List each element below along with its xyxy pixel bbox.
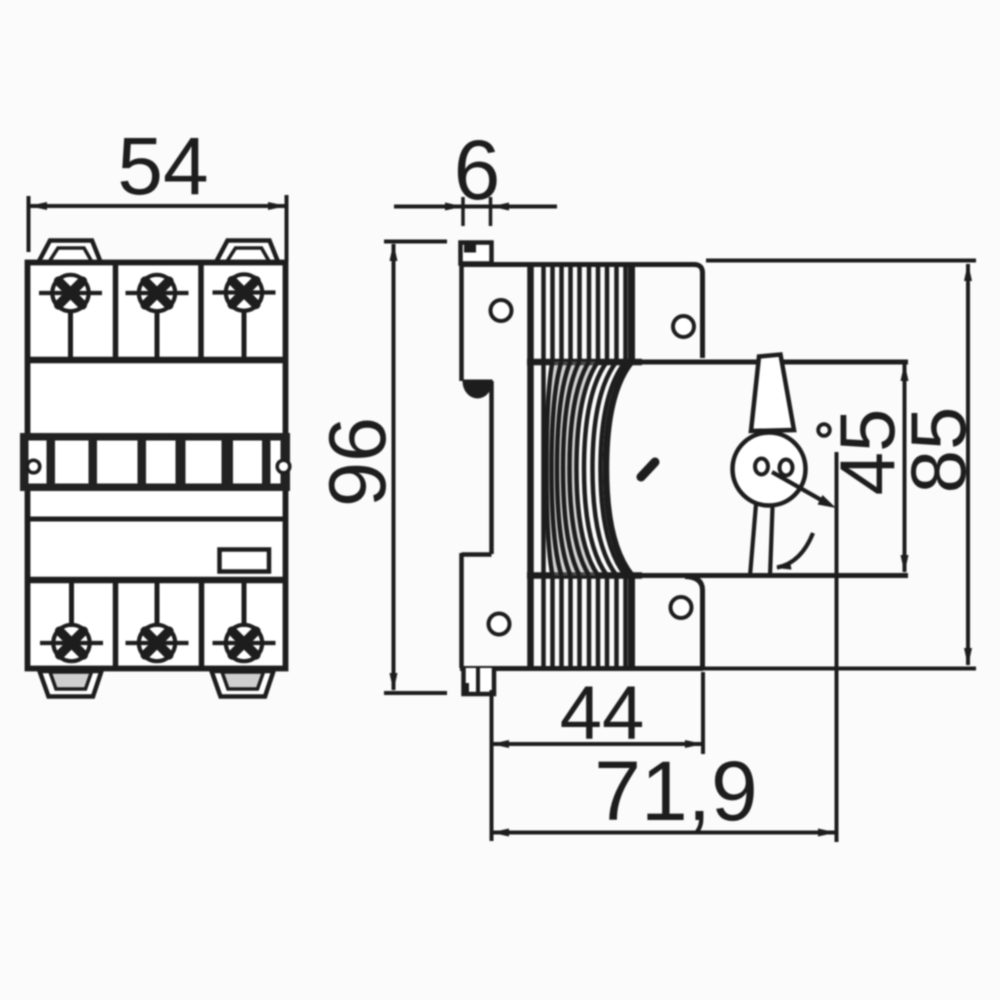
dimension 96 line <box>392 244 396 690</box>
bottom block right edge <box>685 577 703 668</box>
dimension 71,9 line <box>492 831 835 835</box>
rotation leader line <box>772 472 823 501</box>
top terminal separator 1 <box>113 263 119 360</box>
bottom clip right <box>212 671 274 697</box>
breaker body outline <box>28 263 286 669</box>
dimension 54 arrow left <box>29 202 48 210</box>
bottom block fins <box>531 576 632 666</box>
flange notch edge <box>489 381 494 554</box>
curved fins shading <box>547 362 599 576</box>
screw terminal top 2 <box>126 275 189 359</box>
dimension 96 arrow up <box>390 243 398 261</box>
din rail tab top dark insert <box>464 244 476 253</box>
dimension 6 arrow right <box>491 203 509 211</box>
dimension 54 arrow right <box>268 202 287 210</box>
dimension 45 arrow up <box>901 363 909 381</box>
rotation leader arrowhead <box>818 495 837 508</box>
face marking dash <box>641 462 655 477</box>
top clip left inner <box>49 248 92 262</box>
top terminal band bottom line <box>25 357 288 364</box>
face top line / 45 top extension <box>527 360 908 365</box>
flange notch bottom step <box>462 552 492 557</box>
band hole left <box>27 460 40 473</box>
dimension 71,9 right extension <box>835 452 839 842</box>
screw hole top left <box>491 300 512 321</box>
screw hole bottom right <box>671 597 692 618</box>
dimension 6 extension stub right <box>489 197 493 226</box>
dimension 6 extension stub left <box>461 197 465 226</box>
top clip right inner <box>227 248 270 262</box>
dimension 85 arrow down <box>964 648 972 666</box>
top clip left outer <box>38 241 101 264</box>
screw terminal bottom 2 <box>126 582 189 661</box>
dimension 45 arrow down <box>901 555 909 573</box>
dimension 54 extension line left <box>27 196 31 252</box>
dimension 96 arrow down <box>390 673 398 691</box>
toggle pivot circle <box>733 433 806 506</box>
dimension 71,9 arrow right <box>818 829 836 837</box>
degree mark <box>818 424 830 436</box>
screw hole bottom left <box>489 614 510 635</box>
dimension 85 line <box>966 264 970 665</box>
bottom clip right inner <box>222 672 264 689</box>
screw hole top right <box>673 316 694 337</box>
top block fins <box>531 264 632 361</box>
dimension 85 top extension <box>706 259 976 263</box>
side body bottom edge <box>460 666 703 671</box>
dimension 44 arrow right <box>685 740 703 748</box>
din rail foot inner line <box>476 668 480 694</box>
face bottom line / 45 bottom extension <box>527 573 908 578</box>
screw terminal top 1 <box>39 275 102 359</box>
dimension 85 arrow up <box>964 263 972 281</box>
dimension 71,9 left extension <box>490 690 494 841</box>
svg-text:96: 96 <box>313 417 403 507</box>
pivot slot left <box>755 459 768 475</box>
label rectangle <box>220 550 270 572</box>
bottom clip left inner <box>50 672 92 689</box>
dimension 54 extension line right <box>285 195 289 262</box>
flange left edge upper <box>459 262 464 381</box>
band hole right <box>277 460 290 473</box>
svg-text:71,9: 71,9 <box>594 744 758 838</box>
din rail foot <box>464 668 495 694</box>
switch window band <box>20 433 290 491</box>
dimension 71,9 arrow left <box>491 829 509 837</box>
dimension 44 right extension <box>701 672 705 754</box>
flange left edge lower <box>459 553 464 668</box>
rotation arc arrowhead <box>776 561 792 570</box>
bottom terminal band top line <box>25 577 288 584</box>
din rail foot dark insert <box>462 683 470 695</box>
dimension 96 bottom cap <box>384 691 447 695</box>
top terminal separator 2 <box>198 263 204 360</box>
bottom terminal separator 2 <box>199 580 205 666</box>
dimension 96 top cap <box>384 240 447 244</box>
dimension 85 bottom extension <box>703 667 976 671</box>
toggle handle down phantom right line <box>770 507 773 577</box>
din rail tab top <box>461 243 492 264</box>
bottom terminal separator 1 <box>113 580 119 666</box>
dimension 44 line <box>492 742 702 746</box>
svg-text:54: 54 <box>117 121 208 212</box>
pivot slot right <box>780 460 793 476</box>
side body top edge <box>460 265 703 359</box>
screw terminal bottom 3 <box>213 582 276 661</box>
dimension 45 line <box>903 364 907 572</box>
toggle handle down phantom left line <box>750 504 756 576</box>
curved fins <box>531 361 632 576</box>
dimension 54 line <box>30 204 285 208</box>
dimension 6 line <box>394 205 557 209</box>
svg-text:6: 6 <box>454 123 501 217</box>
screw terminal bottom 1 <box>40 582 103 661</box>
bottom clip left <box>40 671 102 697</box>
mid horizontal line <box>25 517 288 522</box>
screw terminal top 3 <box>213 274 276 359</box>
top clip right outer <box>216 241 279 264</box>
dimension 6 arrow left <box>445 203 463 211</box>
rotation arc <box>777 533 813 568</box>
dimension 44 arrow left <box>491 740 509 748</box>
toggle handle up <box>751 355 794 432</box>
din clip blob <box>464 381 491 397</box>
